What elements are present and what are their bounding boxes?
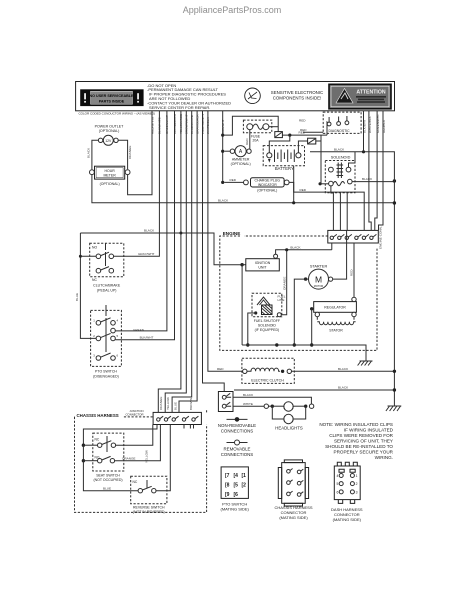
wire battery minus ground drop	[292, 166, 295, 205]
svg-text:RED/BLK: RED/BLK	[382, 119, 386, 133]
svg-text:WHITE/BLK: WHITE/BLK	[368, 115, 372, 133]
wire label BLUE	[173, 402, 177, 410]
label YELLOW	[144, 450, 148, 463]
wire label ORANGE	[159, 397, 163, 410]
sensitive components text	[271, 90, 323, 101]
svg-text:3: 3	[93, 354, 95, 358]
wire harness 8 to chassis connector	[179, 111, 197, 412]
wire label GREEN/WHT	[165, 115, 169, 134]
svg-text:3: 3	[356, 491, 358, 495]
svg-text:NC: NC	[95, 438, 100, 442]
warning strip border	[76, 82, 395, 111]
attention ESD box	[329, 84, 391, 109]
svg-text:GRAY/BLACK: GRAY/BLACK	[195, 114, 199, 134]
headlights	[264, 402, 314, 431]
chassis ground	[386, 406, 401, 411]
clutch brake switch	[90, 243, 124, 292]
wire seat drop to reverse	[83, 445, 138, 491]
svg-text:6: 6	[337, 491, 339, 495]
warning label NO USER SERVICEABLE PARTS INSIDE	[80, 89, 143, 106]
wire hour meter left black bus	[92, 175, 395, 203]
svg-text:ORANGE: ORANGE	[159, 397, 163, 410]
electric clutch	[242, 358, 294, 383]
svg-text:BLACK: BLACK	[243, 393, 254, 397]
svg-text:COLOR CODED CONDUCTOR WIRING –: COLOR CODED CONDUCTOR WIRING – (AS VIEWE…	[79, 112, 156, 116]
wire connector drop C	[189, 425, 191, 429]
wire PTO green to bundle	[111, 111, 167, 333]
svg-text:BLK/WHITE: BLK/WHITE	[158, 117, 162, 134]
svg-text:BLK/WHT: BLK/WHT	[363, 119, 367, 133]
wire black top row	[310, 150, 396, 406]
label BLK/WHT	[140, 335, 154, 339]
label BLUE	[75, 293, 79, 301]
ammeter	[224, 146, 251, 166]
svg-text:(MATING SIDE): (MATING SIDE)	[279, 515, 308, 520]
wire charge plug left	[224, 181, 243, 183]
svg-text:REMOVABLE: REMOVABLE	[223, 446, 250, 451]
svg-text:BLACK: BLACK	[290, 246, 301, 250]
wire reverse up	[156, 425, 170, 491]
svg-text:SERVICE CENTER FOR REPAIR.: SERVICE CENTER FOR REPAIR.	[149, 105, 210, 110]
svg-text:NO: NO	[92, 246, 97, 250]
wire fuse out	[269, 126, 278, 128]
svg-text:M: M	[315, 274, 322, 284]
wire fuse bypass run	[223, 116, 279, 135]
label BLACK	[87, 147, 91, 158]
stator	[317, 317, 355, 333]
wire harness 10 to electric clutch	[208, 111, 243, 371]
ignition unit	[240, 254, 279, 271]
legend non-removable	[218, 417, 256, 434]
svg-text:SERVICING OF UNIT, THEY: SERVICING OF UNIT, THEY	[334, 439, 393, 444]
svg-text:REGULATOR: REGULATOR	[324, 306, 346, 310]
svg-text:BLUE/WHITE: BLUE/WHITE	[190, 115, 194, 134]
svg-text:LINE: LINE	[278, 298, 285, 302]
wire ignition kill to connector	[276, 250, 332, 254]
label BLACK	[243, 393, 254, 397]
wire 12V left to hour meter	[92, 140, 99, 169]
label BLACK	[290, 246, 301, 250]
svg-text:BLACK: BLACK	[362, 177, 373, 181]
wire black row to engine	[80, 232, 242, 265]
svg-text:RED: RED	[300, 188, 307, 192]
wire right vertical A	[363, 111, 365, 152]
svg-text:CLUTCH/BRAKE: CLUTCH/BRAKE	[93, 284, 121, 288]
label engine connector	[379, 226, 383, 249]
label RED	[299, 131, 306, 135]
svg-text:UNIT: UNIT	[258, 266, 267, 270]
svg-text:RED: RED	[245, 138, 249, 145]
label ORANGE	[122, 456, 135, 460]
power outlet 12V socket	[98, 135, 118, 145]
svg-text:ORANGE: ORANGE	[128, 146, 132, 159]
svg-text:RED: RED	[217, 367, 224, 371]
wire label WHITE/BLK	[368, 115, 372, 133]
wire label BLK/WHT	[363, 119, 367, 133]
svg-text:SEAT SWITCH: SEAT SWITCH	[96, 473, 120, 477]
wire hour meter right to bundle	[128, 111, 152, 195]
label RED	[217, 367, 224, 371]
svg-text:CONNECTIONS: CONNECTIONS	[221, 452, 254, 457]
svg-text:NON-REMOVABLE: NON-REMOVABLE	[218, 423, 256, 428]
svg-text:HEADLIGHTS: HEADLIGHTS	[275, 425, 303, 430]
wire clutch brake NO to bundle	[114, 111, 160, 256]
svg-text:BROWN: BROWN	[189, 398, 193, 410]
svg-text:RED: RED	[230, 178, 237, 182]
svg-text:5: 5	[337, 482, 339, 486]
svg-text:WHITE/BLK: WHITE/BLK	[206, 116, 210, 134]
label GRAY/WHT	[138, 252, 155, 256]
wire ammeter feed column	[221, 111, 224, 184]
wire clutch to ground bus	[292, 370, 397, 373]
PTO switch mating connector	[221, 467, 250, 511]
svg-text:ORANGE/BLK: ORANGE/BLK	[173, 113, 177, 134]
svg-text:MOTOR: MOTOR	[314, 284, 324, 288]
wire key feed to connector	[346, 193, 348, 231]
wire charge plug right red	[289, 182, 364, 230]
svg-text:[4: [4	[234, 473, 239, 479]
wire label WHITE/BLK	[206, 116, 210, 134]
svg-text:[2: [2	[242, 483, 247, 489]
wire seat NC up	[116, 425, 153, 446]
charge plug indicator	[244, 178, 290, 193]
svg-text:[8: [8	[225, 483, 230, 489]
wire 12V right down	[118, 140, 127, 169]
wire label RED/WHITE	[150, 117, 154, 134]
svg-text:BROWN/WHT: BROWN/WHT	[185, 114, 189, 134]
svg-text:BATTERY: BATTERY	[275, 166, 294, 171]
svg-text:HOUR: HOUR	[104, 169, 115, 173]
engine connector	[328, 230, 379, 243]
svg-text:(OPTIONAL): (OPTIONAL)	[257, 188, 277, 192]
svg-text:(IF EQUIPPED): (IF EQUIPPED)	[255, 328, 280, 332]
svg-text:CONNECTIONS: CONNECTIONS	[221, 429, 254, 434]
svg-text:NOTE: WIRING INSULATED CLIPS: NOTE: WIRING INSULATED CLIPS	[319, 422, 393, 427]
svg-text:AppliancePartsPros.com: AppliancePartsPros.com	[183, 5, 282, 15]
svg-text:[9: [9	[225, 492, 230, 498]
wire label PURPLE/WHT	[201, 114, 205, 134]
svg-text:WIRING.: WIRING.	[375, 455, 393, 460]
svg-text:YELLOW/RED: YELLOW/RED	[179, 113, 183, 134]
svg-text:GRAY/WHT: GRAY/WHT	[138, 252, 155, 256]
wire diagnostic lower stub	[303, 131, 323, 133]
wire engine ground bus	[242, 343, 366, 361]
breaker box B2	[308, 138, 316, 144]
label BLACK	[218, 198, 229, 202]
wire regulator ground	[310, 309, 313, 347]
label ORANGE	[282, 277, 286, 290]
wire fuel solenoid orange	[281, 248, 288, 315]
wire solenoid top right up	[349, 152, 356, 167]
wire right vertical D	[379, 111, 384, 231]
svg-text:IF WIRING INSULATED: IF WIRING INSULATED	[344, 428, 394, 433]
svg-text:RED: RED	[299, 118, 306, 122]
svg-text:COMPONENTS INSIDE!: COMPONENTS INSIDE!	[273, 96, 322, 101]
svg-text:FUEL SHUTOFF: FUEL SHUTOFF	[254, 319, 280, 323]
svg-text:BLACK: BLACK	[87, 147, 91, 158]
svg-text:PARTS INSIDE: PARTS INSIDE	[99, 100, 125, 104]
svg-text:YELLOW: YELLOW	[166, 397, 170, 410]
wire label RED/BLK	[382, 119, 386, 133]
svg-text:ORANGE: ORANGE	[282, 277, 286, 290]
svg-text:REVERSE SWITCH: REVERSE SWITCH	[133, 505, 165, 509]
chassis connector	[126, 409, 202, 424]
svg-text:POWER OUTLET: POWER OUTLET	[95, 125, 125, 129]
wire B2 to solenoid top	[316, 135, 321, 141]
label BLACK	[362, 177, 373, 181]
svg-text:NC: NC	[133, 480, 138, 484]
hour meter	[90, 166, 131, 186]
caption color coded wiring	[79, 112, 156, 116]
wire harness 5 to chassis connector	[158, 111, 181, 412]
power outlet label	[95, 125, 125, 134]
engine enclosure	[220, 231, 377, 350]
svg-text:[5: [5	[234, 483, 239, 489]
svg-text:GREEN: GREEN	[133, 328, 144, 332]
chassis harness mating connector	[274, 460, 312, 520]
svg-text:(MATING SIDE): (MATING SIDE)	[221, 506, 250, 511]
svg-text:BLUE: BLUE	[173, 402, 177, 410]
svg-text:BLACK: BLACK	[334, 147, 345, 151]
wire solenoid bottom to connector	[331, 186, 334, 231]
svg-text:SOLENOID: SOLENOID	[331, 156, 351, 160]
wire seat NO up	[115, 425, 161, 461]
svg-text:(OPTIONAL): (OPTIONAL)	[231, 162, 251, 166]
svg-text:BLACK: BLACK	[218, 198, 229, 202]
svg-text:(NOT OCCUPIED): (NOT OCCUPIED)	[93, 478, 122, 482]
svg-text:METER: METER	[103, 173, 116, 177]
solenoid	[319, 156, 356, 193]
svg-text:RED: RED	[350, 269, 354, 276]
wire seat feed left	[83, 425, 157, 446]
svg-text:BLACK: BLACK	[338, 386, 349, 390]
svg-text:12V: 12V	[105, 139, 112, 143]
svg-text:5: 5	[117, 334, 119, 338]
wire breaker to battery node	[282, 134, 327, 137]
label RED	[230, 178, 237, 182]
svg-text:AMMETER: AMMETER	[232, 157, 250, 161]
label BLACK	[338, 367, 349, 371]
wire regulator to connector	[353, 243, 355, 297]
wire starter to connector	[333, 230, 347, 279]
svg-text:ELECTRIC CLUTCH: ELECTRIC CLUTCH	[251, 378, 284, 382]
svg-text:1: 1	[93, 319, 95, 323]
light switch	[218, 392, 233, 412]
fuel shutoff solenoid	[252, 293, 286, 332]
label BLUE	[103, 486, 111, 490]
svg-text:(DISENGAGED): (DISENGAGED)	[93, 374, 119, 378]
wire label BLUE/WHITE	[190, 115, 194, 134]
svg-text:RED/WHITE: RED/WHITE	[150, 117, 154, 134]
wire ammeter to fuse	[249, 130, 251, 149]
wire label YELLOW	[166, 397, 170, 410]
label WHITE	[243, 402, 253, 406]
svg-text:DIAGNOSTIC: DIAGNOSTIC	[328, 129, 350, 133]
wire label BROWN	[189, 398, 193, 410]
wire harness 7 to chassis connector	[172, 111, 192, 412]
label BLACK	[144, 229, 155, 233]
wire label RED/WHT	[221, 119, 225, 134]
svg-text:(PEDAL UP): (PEDAL UP)	[97, 288, 117, 292]
svg-text:BLK/WHT: BLK/WHT	[140, 335, 154, 339]
seat switch	[82, 433, 124, 482]
wire label ORANGE/BLK	[173, 113, 177, 134]
svg-text:STARTER: STARTER	[310, 264, 328, 268]
svg-text:4: 4	[117, 319, 119, 323]
svg-text:GREEN/WHT: GREEN/WHT	[165, 115, 169, 134]
svg-text:IGNITION: IGNITION	[255, 261, 271, 265]
starter motor	[304, 264, 333, 289]
svg-text:1: 1	[356, 474, 358, 478]
svg-text:2: 2	[93, 334, 95, 338]
wire starter ground	[293, 279, 306, 347]
svg-text:2: 2	[356, 482, 358, 486]
watermark AppliancePartsPros.com	[183, 5, 282, 15]
svg-text:20A: 20A	[252, 139, 259, 143]
svg-text:SHOULD BE RE-INSTALLED TO: SHOULD BE RE-INSTALLED TO	[325, 444, 393, 449]
label BLACK	[334, 147, 345, 151]
note text	[319, 422, 393, 460]
diagnostic connector	[323, 112, 361, 133]
svg-text:ENGINE CONN.: ENGINE CONN.	[379, 226, 383, 249]
wire fuel solenoid ground	[246, 313, 256, 347]
wire light switch white	[226, 405, 264, 407]
svg-text:BLACK: BLACK	[144, 229, 155, 233]
wire label BLK/WHITE	[158, 117, 162, 134]
wire connector drop B	[193, 425, 195, 429]
ESD hand symbol	[245, 88, 261, 104]
svg-text:STATOR: STATOR	[329, 329, 343, 333]
wire PTO row2 to bundle	[115, 111, 174, 340]
svg-text:ORANGE: ORANGE	[122, 456, 135, 460]
wire connector drop A	[183, 425, 185, 429]
svg-text:BLUE: BLUE	[103, 486, 111, 490]
wire label GRAY/BLACK	[195, 114, 199, 134]
svg-text:BLACK: BLACK	[338, 367, 349, 371]
wire harness 6 to chassis connector	[165, 111, 186, 412]
svg-text:NC: NC	[92, 278, 97, 282]
svg-text:BLUE: BLUE	[75, 293, 79, 301]
svg-text:PURPLE/WHT: PURPLE/WHT	[201, 114, 205, 134]
fuse 20A	[243, 120, 271, 143]
svg-text:CHASSIS HARNESS: CHASSIS HARNESS	[77, 413, 119, 418]
wire ignition ground drop	[241, 265, 243, 345]
wire lower black row	[234, 388, 396, 391]
wire solenoid coil feed	[320, 141, 322, 184]
svg-text:INDICATOR: INDICATOR	[258, 183, 277, 187]
wire right vertical C	[375, 111, 377, 231]
svg-text:ENGINE: ENGINE	[223, 231, 241, 236]
breaker box B1	[275, 132, 283, 138]
regulator	[310, 297, 356, 317]
svg-text:RED: RED	[300, 128, 307, 132]
wire harness 9 to light switch	[203, 111, 225, 392]
svg-text:[1: [1	[242, 473, 247, 479]
svg-text:(OPTIONAL): (OPTIONAL)	[99, 129, 120, 133]
svg-text:(NOT IN REVERSE): (NOT IN REVERSE)	[133, 510, 165, 514]
wire label YELLOW/RED	[179, 113, 183, 134]
wire light switch black	[226, 397, 311, 404]
svg-text:PTO SWITCH: PTO SWITCH	[95, 370, 117, 374]
wire label BROWN/WHT	[185, 114, 189, 134]
wire battery minus to breaker B2	[298, 141, 307, 153]
wire solenoid mid to connector	[339, 193, 341, 231]
svg-text:SENSITIVE ELECTRONIC: SENSITIVE ELECTRONIC	[271, 90, 323, 95]
wire right vertical B	[369, 111, 371, 231]
label BLACK	[338, 386, 349, 390]
legend removable	[221, 440, 254, 457]
svg-text:[6: [6	[234, 492, 239, 498]
reverse switch	[131, 476, 167, 514]
svg-text:RED/WHT: RED/WHT	[221, 119, 225, 134]
label RED	[350, 269, 354, 276]
wire label GREEN/WHT	[376, 114, 380, 133]
label RED	[245, 138, 249, 145]
svg-text:GREEN/WHT: GREEN/WHT	[376, 114, 380, 133]
svg-text:(OPTIONAL): (OPTIONAL)	[100, 182, 120, 186]
engine ground	[358, 361, 373, 366]
svg-text:[7: [7	[225, 473, 230, 479]
svg-text:NO USER SERVICEABLE: NO USER SERVICEABLE	[90, 94, 135, 98]
chassis harness enclosure	[75, 409, 207, 512]
label ORANGE	[128, 146, 132, 159]
PTO switch	[91, 305, 122, 378]
svg-text:6: 6	[117, 354, 119, 358]
wire connector pin1 down	[331, 243, 333, 250]
wire diagnostic feed	[326, 122, 328, 136]
svg-text:ATTENTION: ATTENTION	[356, 90, 386, 96]
label GREEN	[133, 328, 144, 332]
dash harness mating connector	[331, 462, 363, 522]
wire left drop to clutch brake and PTO	[79, 233, 96, 338]
svg-text:WHITE: WHITE	[243, 402, 253, 406]
battery	[263, 146, 304, 172]
svg-text:PROPERLY SECURE YOUR: PROPERLY SECURE YOUR	[334, 450, 394, 455]
wire solenoid black out	[352, 179, 396, 182]
warning text block	[147, 83, 231, 110]
svg-text:(MATING SIDE): (MATING SIDE)	[333, 517, 362, 522]
label RED	[299, 118, 306, 122]
svg-text:YELLOW: YELLOW	[144, 450, 148, 463]
label RED	[300, 128, 307, 132]
svg-text:CLIPS WERE REMOVED FOR: CLIPS WERE REMOVED FOR	[329, 433, 393, 438]
svg-text:4: 4	[337, 474, 339, 478]
svg-text:CONNECTOR: CONNECTOR	[126, 412, 144, 416]
svg-text:SOLENOID: SOLENOID	[258, 323, 277, 327]
label RED	[300, 188, 307, 192]
wire battery plus	[269, 135, 290, 153]
